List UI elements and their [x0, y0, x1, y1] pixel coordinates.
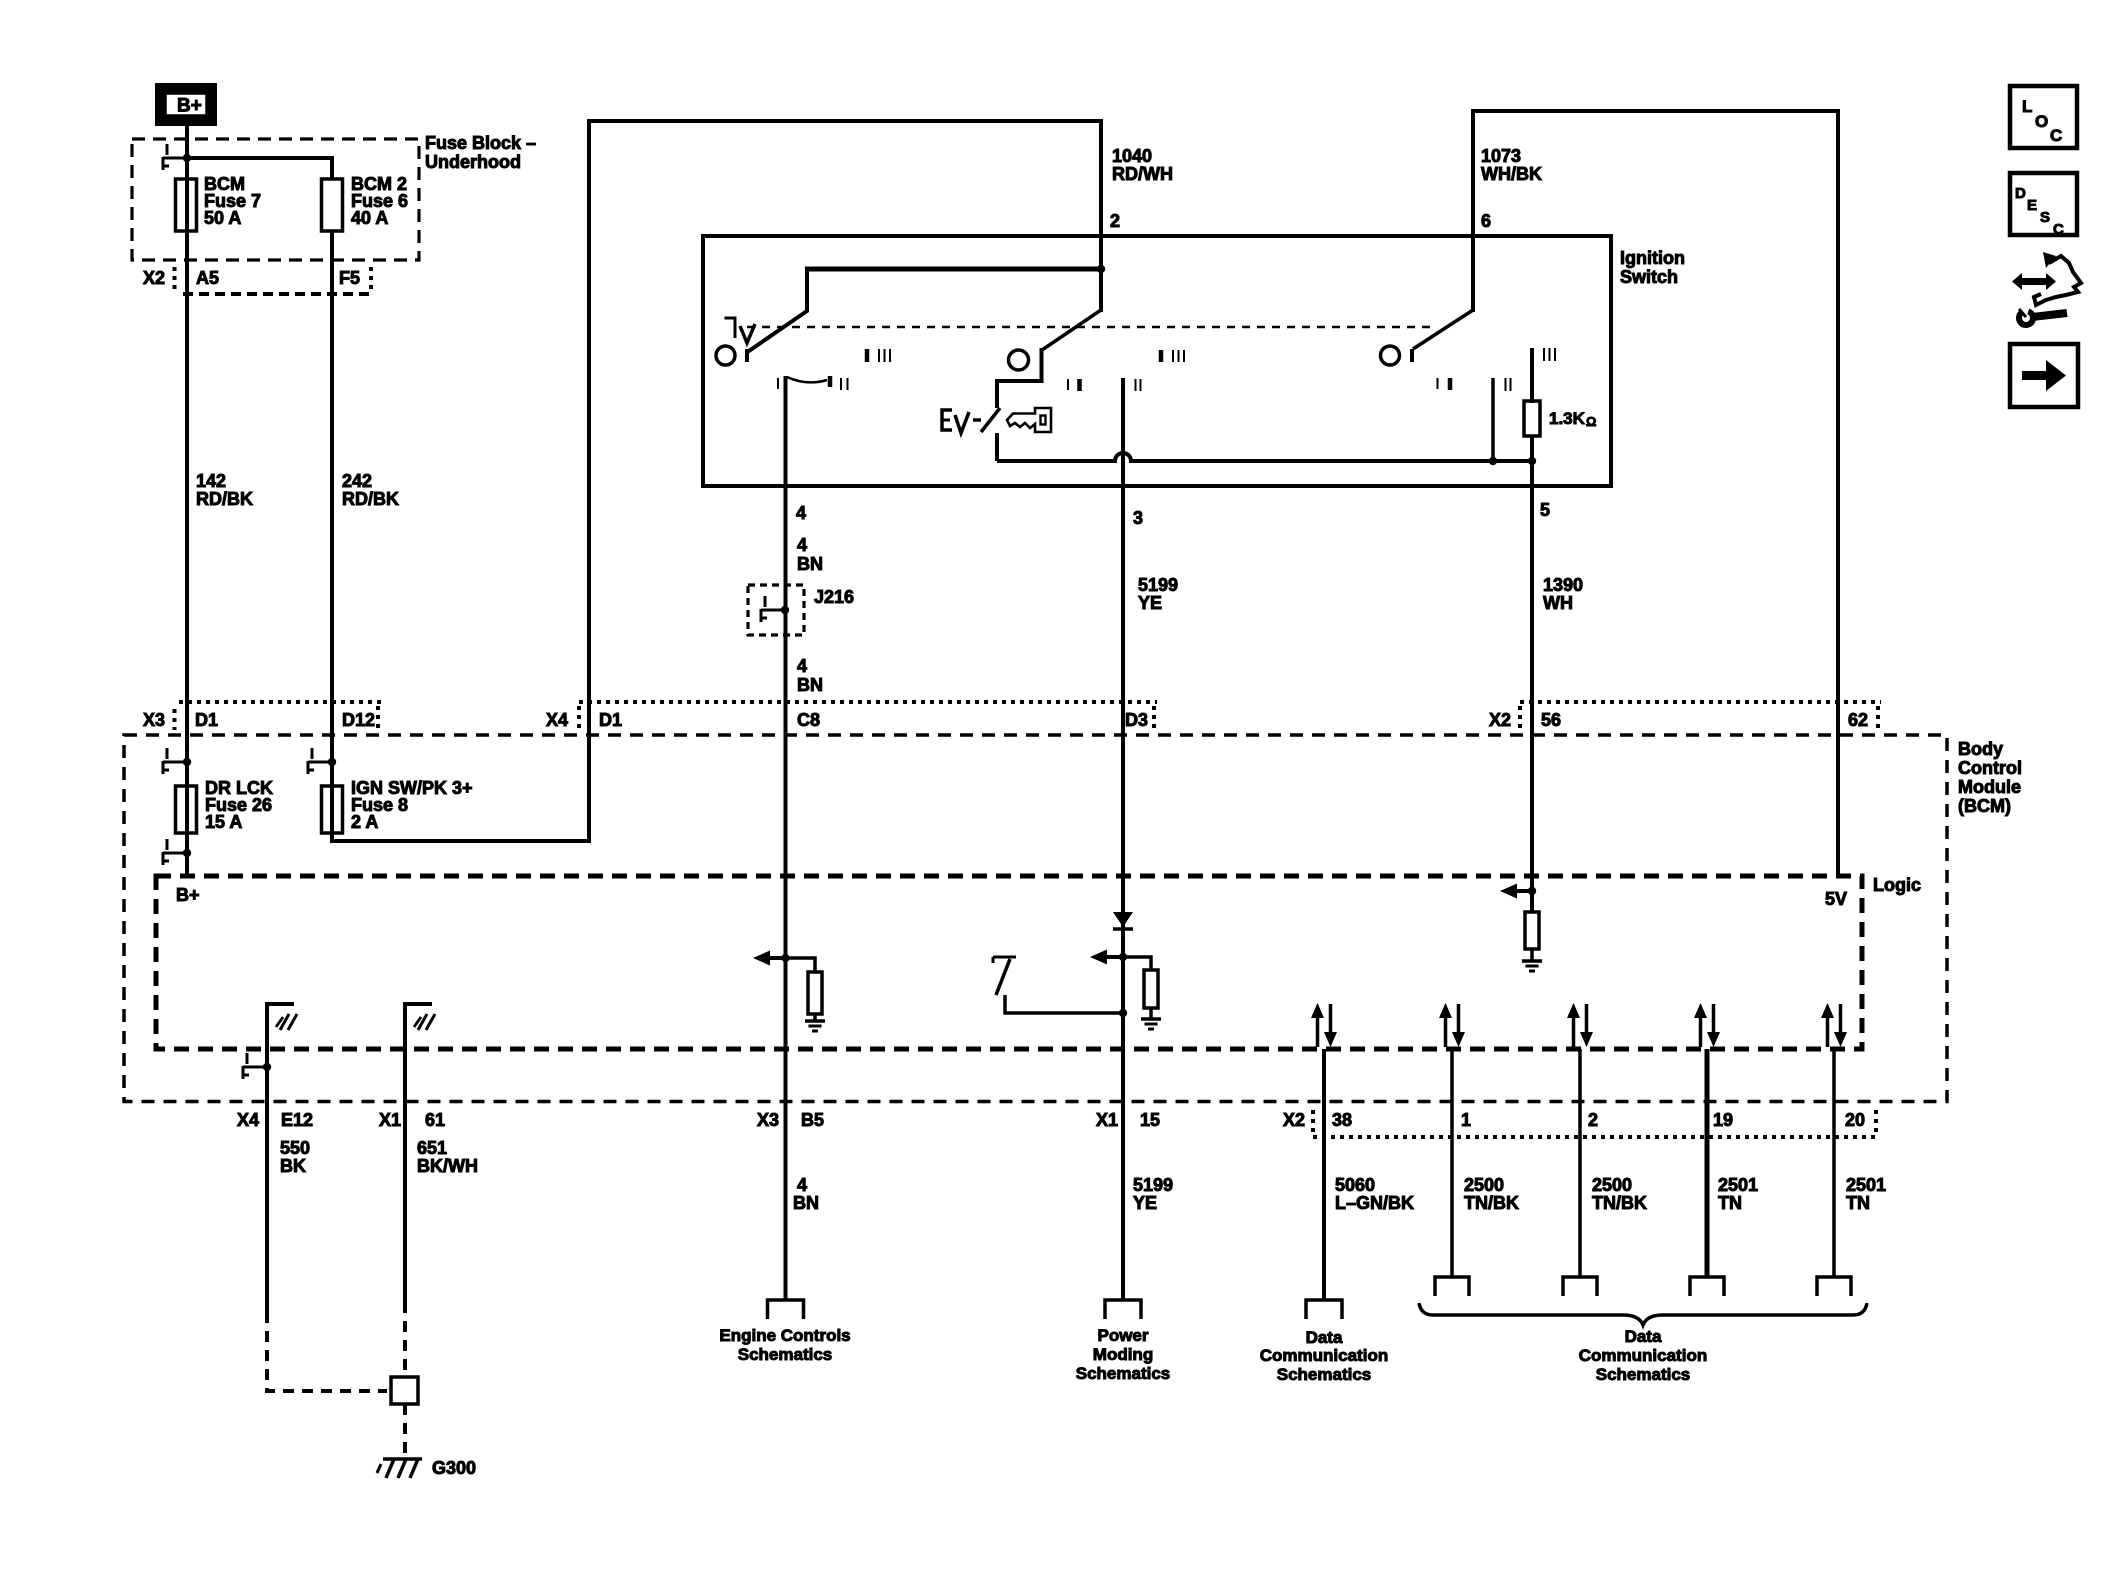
splice J216 dashed box	[748, 585, 804, 635]
wire to BCM pin 62 (x=1838)	[1836, 109, 1840, 876]
svg-text:Schematics: Schematics	[1596, 1365, 1691, 1384]
connector X2 BCM top strip	[1520, 700, 1881, 704]
svg-text:Module: Module	[1958, 777, 2021, 797]
svg-text:15 A: 15 A	[205, 812, 242, 832]
terminal clip at DR LCK fuse	[166, 748, 169, 759]
resistor R1 on B5 input	[808, 972, 822, 1014]
svg-text:6: 6	[1481, 211, 1491, 231]
svg-text:2500: 2500	[1464, 1175, 1504, 1195]
data link arrows pin 19	[1699, 1016, 1703, 1047]
junction dot resistor / y461	[1528, 457, 1536, 465]
wire 242 RD/BK (x=332)	[330, 231, 334, 841]
svg-text:X3: X3	[143, 710, 165, 730]
svg-text:4: 4	[796, 503, 806, 523]
sec1 position marks I III	[865, 349, 870, 362]
chassis ground on 651 leg	[414, 1017, 421, 1027]
wire 651 BK/WH ground leg (x=405)	[405, 1004, 432, 1302]
svg-text:BK/WH: BK/WH	[417, 1156, 478, 1176]
svg-text:1.3K: 1.3K	[1549, 409, 1586, 428]
sec3 position marks II	[1505, 378, 1507, 391]
wire branch to BCM2 fuse (y=158)	[187, 156, 332, 160]
data link arrows pin 38	[1316, 1016, 1320, 1047]
svg-text:50 A: 50 A	[204, 208, 241, 228]
svg-text:56: 56	[1541, 710, 1561, 730]
sec1 movable contact circle	[716, 346, 735, 365]
svg-text:X3: X3	[757, 1110, 779, 1130]
svg-text:D: D	[2015, 185, 2026, 202]
wire 1073 WH/BK drop (x=1473)	[1471, 109, 1475, 312]
svg-text:Fuse Block –: Fuse Block –	[425, 133, 536, 153]
sec3 thick tick	[1448, 378, 1453, 390]
node 56 pull-up arrow	[1500, 884, 1517, 899]
svg-text:X4: X4	[237, 1110, 259, 1130]
icon double arrow	[2012, 273, 2056, 290]
svg-text:X2: X2	[1283, 1110, 1305, 1130]
svg-text:C8: C8	[797, 710, 820, 730]
battery positive B+ box inner	[166, 94, 207, 116]
ground below R2	[1141, 1017, 1161, 1021]
wire from fuse 8 up to ignition switch feed (x=589)	[587, 119, 591, 841]
svg-text:62: 62	[1848, 710, 1868, 730]
wire CAN 2500 pin1 (x=1452)	[1450, 1049, 1454, 1277]
off-page connector pin 20	[1817, 1277, 1851, 1296]
sec3 switch blade	[1413, 310, 1473, 349]
svg-text:Ω: Ω	[1586, 414, 1596, 429]
svg-text:61: 61	[425, 1110, 445, 1130]
connector X4 pin strip	[579, 700, 1157, 704]
svg-text:142: 142	[196, 471, 226, 491]
wire resistor R1 to ground	[813, 1014, 817, 1021]
wire CAN 2500 pin2 (x=1580)	[1578, 1049, 1582, 1277]
icon wrench	[2019, 311, 2033, 325]
svg-text:D1: D1	[195, 710, 218, 730]
svg-text:19: 19	[1713, 1110, 1733, 1130]
svg-text:Moding: Moding	[1093, 1345, 1153, 1364]
terminal clip at IGN SW fuse	[311, 748, 314, 759]
wire 4 BN / B5 (x=785.5)	[784, 489, 788, 958]
svg-text:X4: X4	[546, 710, 568, 730]
sec1 accessory symbol	[725, 318, 736, 338]
svg-text:Ignition: Ignition	[1620, 248, 1685, 268]
svg-text:WH: WH	[1543, 593, 1573, 613]
BCM logic dashed box	[156, 876, 1862, 1049]
svg-text:RD/WH: RD/WH	[1112, 164, 1173, 184]
wire 142 RD/BK from B+ through fuses to BCM B+ (x=187)	[185, 126, 189, 876]
svg-text:651: 651	[417, 1138, 447, 1158]
svg-text:2501: 2501	[1718, 1175, 1758, 1195]
svg-text:Schematics: Schematics	[1277, 1365, 1372, 1384]
svg-text:F5: F5	[339, 268, 360, 288]
off-page connector engine controls	[768, 1300, 804, 1319]
svg-text:YE: YE	[1133, 1193, 1157, 1213]
svg-text:40 A: 40 A	[351, 208, 388, 228]
svg-text:550: 550	[280, 1138, 310, 1158]
svg-text:O: O	[2035, 112, 2048, 131]
svg-text:B5: B5	[801, 1110, 824, 1130]
ground below R1	[805, 1019, 825, 1023]
sec2 thick tick	[1077, 379, 1082, 391]
sec2 key switch label Ev	[942, 410, 952, 430]
svg-text:2: 2	[1110, 211, 1120, 231]
svg-text:TN/BK: TN/BK	[1592, 1193, 1647, 1213]
sec1 thick feed wire (y=269)	[805, 267, 1101, 272]
sec2 horizontal wire y=461 with hop at pin3 wire	[997, 453, 1532, 461]
svg-text:Data: Data	[1625, 1327, 1662, 1346]
data link arrows pin 2	[1572, 1016, 1576, 1047]
svg-text:242: 242	[342, 471, 372, 491]
svg-text:E12: E12	[281, 1110, 313, 1130]
svg-text:5V: 5V	[1825, 889, 1847, 909]
sec3 position marks III	[1543, 348, 1545, 361]
wire 550 BK ground leg (x=267)	[267, 1004, 294, 1312]
svg-text:C: C	[2050, 126, 2062, 145]
wire serial data 5060 (x=1324)	[1322, 1049, 1326, 1301]
junction dot S1/5199	[1119, 1009, 1127, 1017]
svg-text:5060: 5060	[1335, 1175, 1375, 1195]
ignition internal dashed coupling line	[747, 326, 1431, 329]
node 15 pull-down arrow	[1090, 950, 1107, 965]
svg-text:C: C	[2053, 221, 2064, 238]
svg-text:BN: BN	[797, 675, 823, 695]
icon LOC box	[2010, 86, 2077, 148]
wire branch to 15 resistor	[1123, 957, 1151, 970]
wire 5199 YE / 15 (x=1123)	[1121, 489, 1125, 1013]
junction dot 56 arrow	[1528, 887, 1536, 895]
wire R3 to ground	[1530, 949, 1534, 961]
junction dot at 1040/blade feed	[1097, 265, 1105, 273]
svg-text:Power: Power	[1097, 1326, 1148, 1345]
svg-text:38: 38	[1332, 1110, 1352, 1130]
svg-text:BK: BK	[280, 1156, 306, 1176]
svg-text:G300: G300	[432, 1458, 476, 1478]
svg-text:1073: 1073	[1481, 146, 1521, 166]
svg-text:TN: TN	[1846, 1193, 1870, 1213]
ignition switch box	[703, 236, 1611, 486]
fuse F2 BCM 2 Fuse 6 40A	[322, 179, 343, 231]
icon forward arrow box	[2010, 344, 2078, 407]
fuse F3 DR LCK Fuse 26 15A	[176, 786, 197, 833]
wire ignition pin 4 (x=785.5) inside box	[784, 376, 788, 489]
wire top horizontal to ignition pin 2 (y=121)	[587, 119, 1103, 123]
wire resistor R2 to ground	[1149, 1008, 1153, 1019]
svg-text:D1: D1	[599, 710, 622, 730]
sec1 thick tick	[828, 376, 833, 387]
svg-text:L–GN/BK: L–GN/BK	[1335, 1193, 1414, 1213]
wire drop to fuse 6	[330, 156, 334, 179]
svg-text:Schematics: Schematics	[738, 1345, 833, 1364]
battery positive B+ box outer	[155, 83, 217, 126]
svg-text:B+: B+	[177, 96, 202, 117]
terminal clip at J216	[764, 596, 767, 607]
data link arrows pin 1	[1444, 1016, 1448, 1047]
brace under CAN connectors	[1419, 1303, 1867, 1325]
sec3 contact stub	[1410, 349, 1414, 362]
icon DESC box	[2010, 173, 2077, 235]
junction dot B5 arrow	[781, 954, 789, 962]
wire ignition pin 5 (x=1532)	[1530, 436, 1534, 912]
off-page connector pin 1	[1435, 1277, 1469, 1296]
BCM dashed box	[124, 735, 1947, 1102]
svg-text:L: L	[2022, 97, 2032, 116]
internal switch S1 contact	[993, 956, 1016, 959]
terminal clip below DR LCK fuse	[166, 839, 169, 850]
svg-text:Schematics: Schematics	[1076, 1364, 1171, 1383]
svg-text:5199: 5199	[1138, 575, 1178, 595]
resistor R2 on 5199 input	[1144, 970, 1158, 1008]
wire 1040 RD/WH drop (x=1101)	[1099, 119, 1103, 312]
ground G300 symbol	[383, 1457, 422, 1461]
sec3 position tick I	[1437, 378, 1439, 389]
svg-text:Body: Body	[1958, 739, 2003, 759]
svg-text:WH/BK: WH/BK	[1481, 164, 1542, 184]
data link arrows pin 20	[1826, 1016, 1830, 1047]
sec2 switch blade	[1042, 310, 1101, 350]
icon routing outline	[2043, 252, 2056, 268]
svg-text:X1: X1	[379, 1110, 401, 1130]
svg-text:J216: J216	[814, 587, 854, 607]
svg-text:Communication: Communication	[1579, 1346, 1707, 1365]
icon forward arrow	[2022, 360, 2066, 391]
off-page connector data comm 38	[1306, 1300, 1342, 1319]
svg-text:4: 4	[797, 1175, 807, 1195]
wire 651 dashed to G300	[403, 1302, 407, 1377]
svg-text:Control: Control	[1958, 758, 2022, 778]
svg-text:Engine Controls: Engine Controls	[719, 1326, 850, 1345]
fuse block underhood dashed box	[132, 139, 419, 260]
fuse F4 IGN SW/PK 3+ Fuse 8 2A	[322, 786, 343, 833]
connector X3 pin strip	[179, 700, 381, 704]
svg-text:Underhood: Underhood	[425, 152, 521, 172]
fuse F1 BCM Fuse 7 50A	[176, 179, 197, 231]
svg-text:5199: 5199	[1133, 1175, 1173, 1195]
svg-text:S: S	[2040, 209, 2050, 226]
terminal clip at E12	[246, 1053, 249, 1064]
sec2 movable contact circle	[1009, 350, 1029, 370]
sec2 contact drop	[997, 348, 1042, 408]
svg-text:YE: YE	[1138, 593, 1162, 613]
node B5 pull-down arrow	[753, 951, 770, 966]
connector X2 BCM bottom strip	[1311, 1110, 1315, 1134]
sec2 position marks I III	[1159, 350, 1164, 362]
sec3 wire position III to resistor	[1530, 348, 1534, 403]
internal switch S1 blade	[996, 959, 1010, 995]
svg-text:1: 1	[1461, 1110, 1471, 1130]
wire S1 to junction on 5199	[1005, 995, 1123, 1013]
wire 4BN to engine controls (x=785.5)	[784, 958, 788, 1301]
svg-text:RD/BK: RD/BK	[196, 489, 253, 509]
svg-text:1390: 1390	[1543, 575, 1583, 595]
chassis ground on 550 leg	[276, 1017, 283, 1027]
svg-text:4: 4	[797, 656, 807, 676]
svg-text:E: E	[2027, 197, 2037, 214]
svg-text:5: 5	[1540, 500, 1550, 520]
svg-text:Communication: Communication	[1260, 1346, 1388, 1365]
svg-text:4: 4	[797, 535, 807, 555]
sec3 wire position II drop (x=1493)	[1491, 378, 1495, 461]
wire top horizontal to ignition pin 6 (y=111)	[1471, 109, 1840, 113]
svg-text:2500: 2500	[1592, 1175, 1632, 1195]
svg-text:Data: Data	[1306, 1328, 1343, 1347]
svg-text:X1: X1	[1096, 1110, 1118, 1130]
svg-text:(BCM): (BCM)	[1958, 796, 2011, 816]
wire fuse8-to-589 jumper (y=841)	[330, 839, 591, 843]
svg-text:15: 15	[1140, 1110, 1160, 1130]
svg-text:B+: B+	[176, 885, 200, 905]
svg-text:BN: BN	[793, 1193, 819, 1213]
off-page connector pin 2	[1563, 1277, 1597, 1296]
svg-text:2: 2	[1588, 1110, 1598, 1130]
junction dot 15 arrow	[1119, 953, 1127, 961]
wire ignition pin 3 (x=1123) inside box	[1121, 378, 1125, 489]
svg-text:D3: D3	[1125, 710, 1148, 730]
svg-text:1040: 1040	[1112, 146, 1152, 166]
diode D1 on 5199 input	[1113, 912, 1133, 927]
wire 550 BK dashed to G300	[267, 1312, 387, 1391]
svg-text:Switch: Switch	[1620, 267, 1678, 287]
sec1 switch blade	[746, 269, 807, 353]
off-page connector pin 19	[1690, 1277, 1724, 1296]
wire CAN 2501 pin19 (x=1707)	[1705, 1049, 1710, 1277]
sec2 key switch blade	[981, 408, 1000, 432]
wire CAN 2501 pin20 (x=1834)	[1832, 1049, 1836, 1277]
wire G300 box to ground	[403, 1404, 407, 1459]
sec2 position tick I	[1067, 379, 1069, 390]
svg-text:20: 20	[1845, 1110, 1865, 1130]
sec2 position marks II	[1135, 379, 1137, 391]
junction dot wire II / y461	[1489, 457, 1497, 465]
sec1 position arc	[787, 377, 827, 382]
svg-text:X2: X2	[143, 268, 165, 288]
sec1 position tick I	[777, 378, 779, 389]
ground below R3	[1522, 959, 1542, 963]
svg-text:TN: TN	[1718, 1193, 1742, 1213]
sec2 key lower stub and wire to y461	[995, 433, 999, 461]
svg-text:RD/BK: RD/BK	[342, 489, 399, 509]
svg-text:D12: D12	[342, 710, 375, 730]
svg-text:X2: X2	[1489, 710, 1511, 730]
splice box G300	[391, 1377, 418, 1404]
svg-text:2501: 2501	[1846, 1175, 1886, 1195]
svg-text:2 A: 2 A	[351, 812, 378, 832]
resistor 1.3K ohm	[1524, 401, 1540, 436]
off-page connector power moding	[1105, 1300, 1141, 1319]
wire branch to B5 resistor	[786, 958, 816, 972]
svg-text:Logic: Logic	[1873, 875, 1921, 895]
sec1 contact stub	[745, 349, 749, 362]
connector X2 pin strip of fuse block	[173, 267, 177, 289]
wire 5199 to pin 15	[1121, 1013, 1125, 1301]
sec2 key icon	[1007, 408, 1051, 432]
svg-text:BN: BN	[797, 554, 823, 574]
svg-text:3: 3	[1133, 508, 1143, 528]
sec1 position marks II	[840, 378, 842, 390]
terminal clip at fuse block B+ input	[166, 144, 169, 155]
svg-text:TN/BK: TN/BK	[1464, 1193, 1519, 1213]
svg-text:A5: A5	[196, 268, 219, 288]
sec3 movable contact circle	[1381, 346, 1400, 365]
resistor R3 on 1390 input	[1525, 912, 1539, 949]
